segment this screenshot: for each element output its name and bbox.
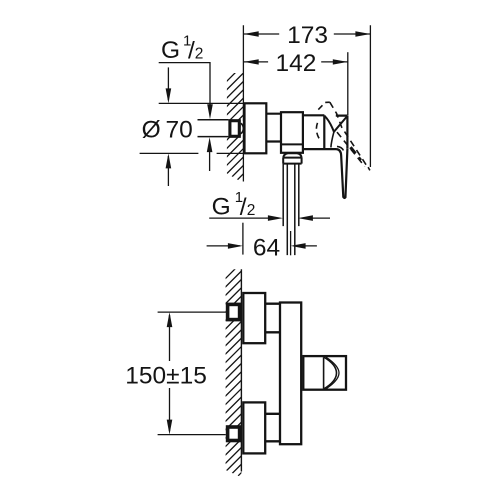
dashed alternate lever thick middle: [351, 147, 361, 160]
handle facet line: [334, 116, 347, 132]
outlet nut (top view): [283, 158, 301, 164]
lever heel arc: [337, 146, 343, 150]
dimension 173 extension line (right): [369, 25, 371, 167]
inlet pipe interior (white over hatch): [198, 121, 229, 136]
handle inner line (front view): [323, 357, 325, 388]
svg-text:70: 70: [166, 117, 193, 144]
escutcheon upper (front view): [243, 293, 265, 343]
arrow up to inlet pipe bottom: [207, 137, 213, 152]
connector lower (front view): [265, 414, 280, 442]
svg-text:G: G: [161, 37, 180, 64]
dimension 142 extension line (right): [347, 52, 349, 115]
inlet pipe in wall (top view): [198, 120, 229, 137]
supply line lower (front view): [158, 434, 226, 436]
dimension 150±15: [169, 315, 171, 431]
Ø70 down arrow: [167, 67, 169, 100]
label G 1/2 (inlet, upper left): [161, 33, 203, 65]
union ball arc (top view): [241, 123, 244, 133]
handle facet lower curve: [331, 132, 334, 148]
body (front view): [280, 303, 301, 445]
connector upper (front view): [265, 304, 280, 333]
dimension 64 extension tick at pipe centre: [290, 231, 292, 255]
neck between escutcheon and body (top view): [266, 114, 281, 142]
svg-text:G: G: [212, 194, 231, 221]
wall section line (front view): [240, 269, 242, 471]
union square upper (front view): [228, 304, 240, 319]
svg-text:Ø: Ø: [142, 117, 161, 144]
dimension 64: [207, 245, 240, 247]
leader line G 1/2 upper: [159, 63, 210, 108]
body internal line: [281, 143, 303, 145]
escutcheon (top view): [245, 103, 267, 153]
svg-text:173: 173: [287, 22, 328, 49]
handle base block (top view): [324, 115, 347, 149]
label Ø 70: [142, 117, 193, 144]
label G 1/2 (outlet, lower): [212, 189, 256, 221]
dashed alternate lever edge A: [330, 102, 367, 166]
supply line upper (front view): [158, 311, 226, 313]
union square (top view): [230, 121, 239, 137]
dimension 64 extension tick at wall: [242, 223, 244, 255]
dashed alternate handle position (up): [318, 102, 330, 109]
arrow left to outlet pipe: [298, 215, 313, 221]
wall hatching (front view): [219, 257, 247, 495]
union square lower (front view): [228, 427, 240, 441]
dimension line Ø70 top extension: [159, 102, 244, 104]
svg-text:/: /: [240, 194, 247, 221]
svg-text:2: 2: [195, 45, 204, 62]
outlet pipe inner lines: [287, 164, 295, 256]
handle facet curve: [325, 116, 334, 132]
handle (front view): [303, 356, 346, 390]
arrow right to outlet pipe: [268, 215, 283, 221]
outlet pipe thread lines: [283, 164, 299, 227]
dashed alternate lever edge B: [337, 132, 365, 166]
outlet dome (top view): [283, 153, 301, 157]
wall hatching (top view): [221, 61, 247, 196]
escutcheon lower (front view): [243, 402, 265, 453]
dashed arc alternate handle: [316, 123, 319, 139]
arrow down to inlet pipe top: [207, 104, 213, 119]
dimension line Ø70 bottom extension: [140, 152, 244, 154]
Ø70 up arrow: [167, 156, 169, 186]
svg-text:142: 142: [276, 50, 317, 77]
svg-text:2: 2: [247, 202, 256, 219]
dimension 173: [244, 33, 371, 35]
svg-text:64: 64: [253, 235, 280, 262]
wall section line (top view): [242, 25, 244, 181]
handle arc 2 (front view): [326, 357, 339, 389]
valve body (top view): [281, 112, 303, 153]
handle arc 1 (front view): [324, 357, 337, 389]
svg-text:150±15: 150±15: [125, 363, 207, 390]
handle lever blade (top view): [337, 149, 348, 198]
leader line G 1/2 lower: [209, 217, 270, 219]
neck to handle (top view): [303, 115, 348, 149]
dimension 142: [244, 61, 348, 63]
